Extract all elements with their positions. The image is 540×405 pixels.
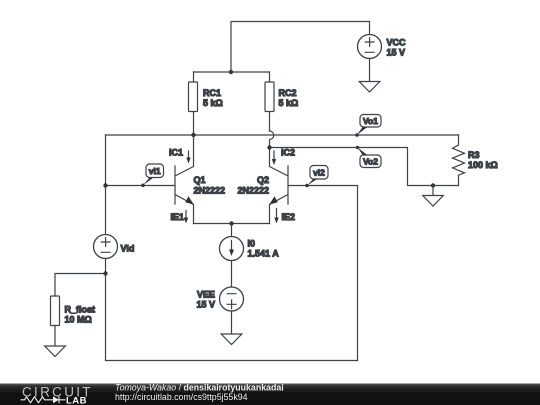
svg-text:VCC: VCC — [387, 38, 407, 48]
svg-text:5 kΩ: 5 kΩ — [279, 98, 299, 108]
label IC2 — [281, 148, 295, 158]
resistor RC2 — [265, 72, 274, 131]
label R_float value — [65, 305, 96, 325]
svg-text:RC1: RC1 — [203, 88, 221, 98]
svg-text:Q2: Q2 — [257, 175, 269, 185]
svg-text:Tomoya-Wakao / densikairotyuuk: Tomoya-Wakao / densikairotyuukankadai — [115, 383, 284, 393]
footer credit text — [115, 383, 284, 403]
label Q1 2N2222 — [194, 175, 226, 196]
svg-text:I0: I0 — [248, 239, 256, 249]
svg-text:Vo2: Vo2 — [363, 157, 378, 167]
node flag Vo2 — [356, 146, 381, 168]
footer bar — [0, 384, 540, 405]
current arrow IC1 — [186, 151, 190, 164]
wire node Vo1 horizontal — [106, 134, 459, 136]
node junction R_float tap — [103, 271, 107, 275]
svg-text:IC2: IC2 — [281, 148, 295, 158]
svg-text:Q1: Q1 — [194, 175, 206, 185]
svg-text:R3: R3 — [468, 150, 480, 160]
label VCC value — [387, 38, 407, 58]
svg-text:2N2222: 2N2222 — [194, 186, 226, 196]
resistor R3 — [453, 135, 465, 186]
label IC1 — [169, 148, 183, 158]
wire Q2 base to input loop — [288, 186, 358, 361]
label RC2 value — [279, 88, 299, 108]
transistor Q2 — [269, 148, 288, 224]
current source I0 — [220, 224, 244, 288]
svg-text:vi1: vi1 — [149, 166, 161, 176]
svg-text:5 kΩ: 5 kΩ — [203, 98, 223, 108]
svg-text:1.541 A: 1.541 A — [248, 249, 280, 259]
voltage source VCC — [358, 35, 382, 59]
label Vid — [121, 244, 135, 254]
svg-text:IE1: IE1 — [170, 212, 184, 222]
wire RC1-RC2 top bus — [194, 71, 270, 73]
current arrow IE2 — [274, 209, 278, 224]
label VEE value — [196, 290, 215, 310]
svg-text:IC1: IC1 — [169, 148, 183, 158]
svg-text:LAB: LAB — [66, 396, 87, 405]
voltage source Vid — [94, 235, 118, 259]
svg-text:R_float: R_float — [65, 305, 96, 315]
wire Vid bottom column — [105, 259, 107, 361]
logo CircuitLab — [21, 385, 93, 405]
label R3 value — [468, 150, 498, 170]
svg-text:Vid: Vid — [121, 244, 135, 254]
svg-text:10 MΩ: 10 MΩ — [65, 315, 92, 325]
resistor RC1 — [189, 72, 198, 135]
label RC1 value — [203, 88, 223, 108]
node flag Vo1 — [355, 115, 381, 137]
svg-text:Vo1: Vo1 — [363, 116, 378, 126]
ground under VEE — [221, 311, 242, 345]
transistor Q1 — [175, 135, 194, 224]
wire bottom loop — [106, 360, 358, 362]
ground under R_float — [45, 346, 66, 357]
wire hop RC2 bottom over Vo1 line — [270, 131, 274, 148]
node flag vi2 — [305, 166, 328, 188]
wire emitter bus — [194, 223, 270, 225]
label I0 value — [248, 239, 280, 259]
wire Q1 base — [106, 185, 176, 187]
svg-text:2N2222: 2N2222 — [237, 186, 269, 196]
node junction R3 ground — [431, 183, 435, 187]
svg-text:15 V: 15 V — [387, 48, 406, 58]
label Q2 2N2222 — [237, 175, 269, 196]
ground under R3 — [423, 186, 444, 207]
wire left input column — [105, 135, 107, 235]
node junction emitter bus — [229, 221, 233, 225]
wire node Vo2 horizontal — [270, 148, 459, 186]
label IE2 — [282, 212, 296, 222]
ground under VCC — [359, 59, 380, 93]
svg-text:RC2: RC2 — [279, 88, 297, 98]
svg-text:vi2: vi2 — [313, 168, 325, 178]
voltage source VEE — [220, 287, 244, 311]
svg-text:http://circuitlab.com/cs9ttp5j: http://circuitlab.com/cs9ttp5j55k94 — [115, 392, 248, 402]
label IE1 — [170, 212, 184, 222]
wire to R_float — [55, 274, 106, 297]
svg-text:VEE: VEE — [197, 290, 215, 300]
node junction Q1 base — [103, 183, 107, 187]
current arrow IC2 — [272, 151, 276, 165]
node junction Q2 collector — [267, 145, 271, 149]
wire top bus — [231, 22, 370, 73]
svg-text:15 V: 15 V — [196, 300, 215, 310]
node flag vi1 — [141, 164, 163, 187]
current arrow IE1 — [184, 211, 188, 224]
node junction top bus — [229, 70, 233, 74]
svg-text:100 kΩ: 100 kΩ — [468, 160, 498, 170]
node junction RC1 collector — [191, 133, 195, 137]
resistor R_float — [51, 296, 60, 346]
svg-text:IE2: IE2 — [282, 212, 296, 222]
